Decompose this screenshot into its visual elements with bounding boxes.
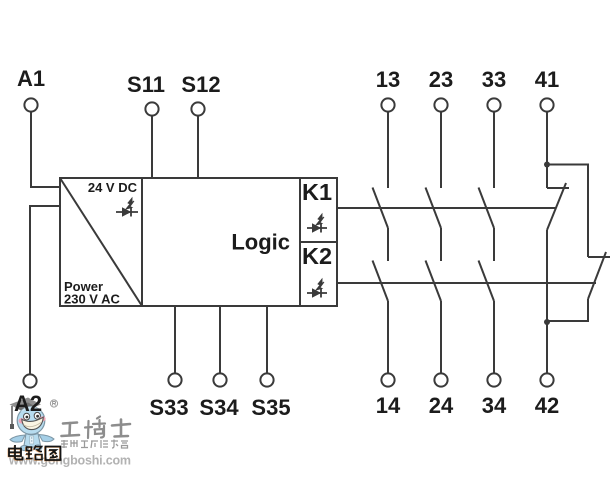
svg-text:41: 41 — [535, 67, 559, 92]
K column divider — [299, 178, 301, 306]
wire S35 — [266, 306, 268, 373]
contact K1 23-24 — [426, 188, 442, 229]
wire 23 down — [440, 112, 442, 188]
LED K1 — [307, 214, 327, 233]
svg-text:Logic: Logic — [231, 230, 290, 255]
wire A1 to box — [31, 112, 60, 187]
main device box — [60, 178, 337, 306]
svg-text:42: 42 — [535, 393, 559, 418]
wire S12 — [197, 116, 199, 178]
terminal 42 — [540, 373, 553, 386]
node junction top — [544, 162, 550, 168]
contact K1 13-14 — [373, 188, 389, 229]
wire 34 up — [493, 301, 495, 373]
node junction bottom — [544, 319, 550, 325]
contact NC K2 41-42 — [588, 252, 606, 299]
svg-text:24: 24 — [429, 393, 454, 418]
power section diagonal — [60, 178, 142, 306]
contact K2 13-14 — [373, 261, 389, 302]
watermark text bo — [85, 417, 105, 439]
contact K1 33-34 — [479, 188, 495, 229]
contact NC K1 41-42 — [547, 183, 566, 230]
wire branch right bottom — [547, 299, 588, 321]
LED power — [116, 198, 138, 217]
watermark mascot mouth — [22, 417, 44, 429]
watermark mascot head — [17, 407, 45, 435]
svg-text:24 V DC: 24 V DC — [88, 180, 138, 195]
terminal 41 — [540, 98, 553, 111]
watermark mascot eyes — [24, 412, 41, 420]
terminal S35 — [260, 373, 273, 386]
terminal 24 — [434, 373, 447, 386]
wire 33 down — [493, 112, 495, 188]
contact K2 33-34 — [479, 261, 495, 302]
wire 41 lower — [546, 230, 548, 373]
terminal 23 — [434, 98, 447, 111]
svg-text:230 V AC: 230 V AC — [64, 292, 120, 307]
svg-text:S11: S11 — [127, 72, 165, 97]
terminal A1 — [24, 98, 37, 111]
svg-text:www.gongboshi.com: www.gongboshi.com — [8, 454, 131, 468]
NC seat K1 41 — [547, 187, 569, 189]
svg-text:S12: S12 — [181, 72, 220, 97]
wire 41 down — [546, 112, 548, 188]
stamp fringe — [8, 446, 60, 461]
wire S33 — [174, 306, 176, 373]
terminal S11 — [145, 102, 158, 115]
svg-text:13: 13 — [376, 67, 400, 92]
svg-text:A1: A1 — [17, 66, 45, 91]
watermark mascot body — [10, 434, 54, 451]
wire 14 up — [387, 301, 389, 373]
svg-text:S35: S35 — [251, 395, 290, 420]
watermark registered mark — [50, 400, 57, 407]
wire S34 — [219, 306, 221, 373]
watermark mascot head shine — [20, 407, 42, 412]
watermark text gong — [62, 423, 80, 437]
watermark mascot cheeks — [19, 416, 46, 423]
svg-text:23: 23 — [429, 67, 453, 92]
power section divider — [141, 178, 143, 306]
K1 actuation line — [337, 207, 556, 209]
watermark text shi — [112, 420, 130, 437]
wire A2 to box — [30, 206, 60, 374]
wire mid 13-14 — [387, 228, 389, 261]
wire 13 down — [387, 112, 389, 188]
watermark tagline — [61, 440, 128, 449]
svg-text:33: 33 — [482, 67, 506, 92]
svg-text:A2: A2 — [14, 391, 42, 416]
contact K2 23-24 — [426, 261, 442, 302]
wire 24 up — [440, 301, 442, 373]
terminal S33 — [168, 373, 181, 386]
svg-text:S34: S34 — [199, 395, 239, 420]
wire branch right top — [547, 165, 588, 258]
wire mid 23-24 — [440, 228, 442, 261]
K2 actuation line — [337, 282, 596, 284]
wire S11 — [151, 116, 153, 178]
stamp tu — [46, 447, 61, 461]
terminal S34 — [213, 373, 226, 386]
terminal A2 — [23, 374, 36, 387]
stamp dian — [9, 445, 23, 460]
terminal S12 — [191, 102, 204, 115]
svg-text:S33: S33 — [149, 395, 188, 420]
svg-text:34: 34 — [482, 393, 507, 418]
terminal 34 — [487, 373, 500, 386]
terminal 14 — [381, 373, 394, 386]
svg-text:K2: K2 — [302, 243, 332, 269]
terminal 13 — [381, 98, 394, 111]
terminal 33 — [487, 98, 500, 111]
stamp lu — [26, 446, 42, 460]
svg-text:K1: K1 — [302, 179, 332, 205]
LED K2 — [307, 279, 327, 298]
wire mid 33-34 — [493, 228, 495, 261]
watermark mascot cap — [10, 398, 42, 430]
svg-text:14: 14 — [376, 393, 401, 418]
NC seat K2 42 — [588, 256, 610, 258]
K1/K2 divider — [300, 241, 337, 243]
